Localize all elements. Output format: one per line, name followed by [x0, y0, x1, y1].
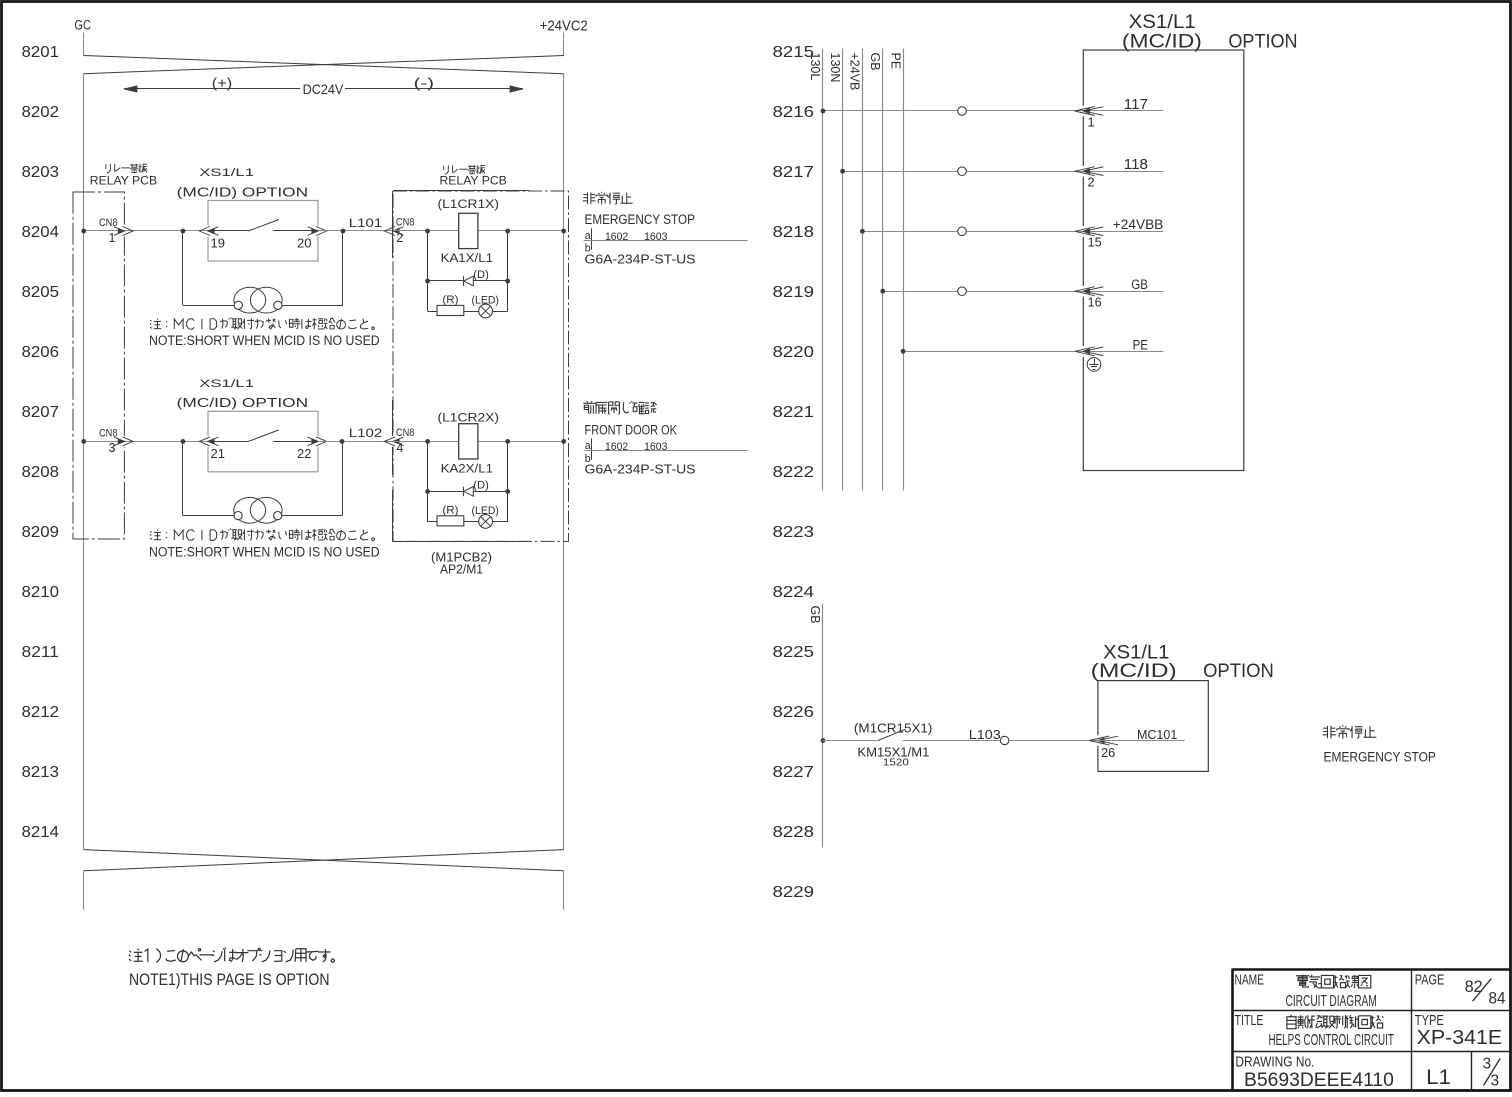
svg-text:OPTION: OPTION — [1203, 660, 1274, 682]
bus 130N — [842, 49, 844, 491]
wire net 117 row — [823, 110, 1163, 112]
svg-text:1602: 1602 — [605, 231, 628, 243]
svg-text:(LED): (LED) — [472, 505, 499, 517]
svg-text:8217: 8217 — [773, 164, 815, 181]
svg-text:TITLE: TITLE — [1235, 1013, 1264, 1029]
svg-text:AP2/M1: AP2/M1 — [440, 562, 483, 577]
svg-text:XS1/L1: XS1/L1 — [199, 167, 254, 179]
svg-text:8209: 8209 — [22, 524, 60, 541]
contact cross-reference a/b row2 — [584, 438, 748, 465]
connector pin 26 — [1089, 735, 1118, 746]
svg-text:GC: GC — [74, 18, 91, 34]
bus 130L — [822, 49, 824, 491]
svg-text:2: 2 — [396, 231, 403, 245]
svg-text:OPTION: OPTION — [1228, 31, 1297, 53]
svg-text:1603: 1603 — [644, 441, 667, 453]
svg-text:1602: 1602 — [605, 441, 628, 453]
wire +24VC2 bus bottom stub — [563, 871, 565, 910]
svg-text:84: 84 — [1489, 989, 1506, 1007]
resistor R row2 — [437, 516, 464, 526]
branch verticals row2 cell — [427, 441, 429, 521]
svg-text:130L: 130L — [808, 53, 822, 81]
svg-text:1: 1 — [1088, 115, 1095, 130]
DC24V polarity arrow — [124, 75, 523, 98]
pin 20 connector — [308, 226, 327, 237]
svg-text:8226: 8226 — [773, 704, 815, 721]
XS1/L1 MC/ID option box (bottom) — [1098, 681, 1208, 772]
node L102 junction — [340, 439, 345, 444]
connector CN8 pin 4 — [384, 436, 403, 447]
shorting jumper (MCID bypass) row1 — [183, 231, 344, 313]
pin 21 connector — [199, 436, 218, 447]
svg-text:8206: 8206 — [22, 344, 60, 361]
svg-text:2: 2 — [1088, 175, 1095, 190]
svg-text:G6A-234P-ST-US: G6A-234P-ST-US — [585, 461, 696, 476]
svg-text:+24VBB: +24VBB — [1113, 217, 1164, 233]
relay PCB boundary box (right) — [393, 191, 569, 541]
svg-text:RELAY PCB: RELAY PCB — [440, 174, 507, 188]
wire GC bus stub — [83, 33, 85, 56]
LED lamp row1 — [479, 304, 493, 318]
label relay PCB (left) — [105, 164, 107, 168]
svg-text:EMERGENCY STOP: EMERGENCY STOP — [585, 212, 695, 227]
contact switch 21-22 — [208, 430, 318, 442]
svg-text:8210: 8210 — [22, 584, 60, 601]
junction node before contact 19 — [181, 229, 186, 234]
svg-text:CN8: CN8 — [99, 217, 118, 229]
svg-text:8202: 8202 — [22, 104, 60, 121]
svg-text:(LED): (LED) — [472, 294, 499, 306]
svg-text:GB: GB — [808, 606, 822, 624]
svg-text:GB: GB — [1131, 277, 1148, 293]
pin 22 connector — [308, 436, 327, 447]
wire node GC to CN8-1 — [84, 230, 208, 232]
title block — [1232, 969, 1510, 1091]
MC/ID option box U1 (XS1/L1 contact 19-20) — [208, 201, 318, 262]
bus GB (bottom section) — [822, 604, 824, 848]
svg-text:8207: 8207 — [22, 404, 60, 421]
svg-text:(MC/ID): (MC/ID) — [1122, 31, 1202, 53]
relay coil KA1X/L1 (L1CR1X) — [459, 213, 478, 248]
LED lamp row2 — [479, 515, 493, 529]
svg-text:(D): (D) — [473, 480, 489, 492]
svg-text:8220: 8220 — [773, 344, 815, 361]
svg-text:8216: 8216 — [773, 104, 815, 121]
junction on +24VC2 bus row2 — [561, 439, 566, 444]
svg-text:FRONT DOOR OK: FRONT DOOR OK — [585, 422, 678, 437]
svg-text:8205: 8205 — [22, 284, 60, 301]
svg-text:+24VB: +24VB — [848, 53, 862, 91]
terminal circle net GB — [958, 287, 967, 296]
wire contact to relay (node L102) — [318, 441, 393, 443]
diode branch row2 — [428, 491, 508, 493]
svg-text:130N: 130N — [828, 53, 842, 83]
svg-text:PAGE: PAGE — [1415, 972, 1445, 988]
wire bus crossover top — [84, 56, 564, 74]
wire contact to relay (node L101) — [318, 230, 393, 232]
svg-text:8201: 8201 — [22, 44, 60, 61]
wire stub inside bottom box — [1098, 740, 1185, 742]
svg-text:G6A-234P-ST-US: G6A-234P-ST-US — [585, 251, 696, 266]
wire net +24VBB row — [862, 231, 1163, 233]
svg-text:16: 16 — [1088, 295, 1102, 310]
svg-text:8225: 8225 — [773, 644, 815, 661]
diode D row2 — [464, 487, 474, 497]
svg-text:8224: 8224 — [773, 584, 815, 601]
svg-text:4: 4 — [396, 441, 403, 455]
diode branch row1 — [428, 280, 508, 282]
svg-text:CN8: CN8 — [396, 216, 415, 228]
svg-text:8203: 8203 — [22, 164, 60, 181]
junction on +24VC2 bus row1 — [561, 229, 566, 234]
wire +24VC2 bus stub — [563, 33, 565, 56]
contact switch 19-20 — [208, 220, 318, 232]
svg-text:KA1X/L1: KA1X/L1 — [441, 251, 494, 265]
svg-text:L103: L103 — [969, 727, 1001, 742]
wire L103 to option box — [1009, 740, 1098, 742]
terminal circle net +24VBB — [958, 227, 967, 236]
junction node before contact 21 — [181, 439, 186, 444]
svg-text:118: 118 — [1124, 157, 1148, 173]
svg-text:+24VC2: +24VC2 — [540, 17, 588, 34]
svg-text:B5693DEEE4110: B5693DEEE4110 — [1244, 1069, 1394, 1091]
svg-text:PE: PE — [1133, 337, 1148, 353]
relay coil KA2X/L1 (L1CR2X) — [459, 424, 478, 459]
svg-text:NOTE:SHORT WHEN MCID IS NO USE: NOTE:SHORT WHEN MCID IS NO USED — [149, 333, 380, 348]
junction on GB bus 8226 — [821, 738, 826, 743]
junction relay right row2 — [505, 439, 510, 444]
junction on bus 130N — [840, 169, 845, 174]
wire net GB row — [883, 291, 1164, 293]
junction on bus GB — [880, 289, 885, 294]
svg-text:8222: 8222 — [773, 464, 815, 481]
wire bus crossover bottom — [84, 850, 564, 871]
svg-text:3: 3 — [1483, 1056, 1492, 1073]
label relay PCB (right) — [443, 166, 445, 170]
svg-text:8214: 8214 — [22, 824, 60, 841]
svg-text:DC24V: DC24V — [303, 82, 345, 97]
svg-text:CN8: CN8 — [396, 427, 415, 439]
wire +24VC2 bus (right vertical) — [563, 74, 565, 850]
wire relay row1 — [393, 230, 564, 232]
svg-text:(L1CR2X): (L1CR2X) — [438, 411, 500, 425]
svg-text:XP-341E: XP-341E — [1417, 1026, 1503, 1049]
wire node GC to CN8-3 — [84, 441, 208, 443]
branch verticals row1 cell — [427, 231, 429, 311]
node L101 junction — [341, 229, 346, 234]
annotation emergency stop (Japanese, bottom) — [1326, 726, 1328, 738]
protective earth symbol PE — [1087, 358, 1101, 372]
svg-text:CN8: CN8 — [99, 428, 118, 440]
svg-text:8221: 8221 — [773, 404, 815, 421]
svg-text:L102: L102 — [349, 427, 382, 440]
svg-text:8228: 8228 — [773, 824, 815, 841]
svg-text:8218: 8218 — [773, 224, 815, 241]
annotation front door OK (Japanese) row2 — [587, 401, 588, 402]
terminal circle net 118 — [958, 167, 967, 176]
note 1: this page is option (Japanese) — [129, 951, 131, 953]
connector pin 16 (right box) — [1075, 286, 1104, 297]
svg-text:8219: 8219 — [773, 284, 815, 301]
svg-text:NAME: NAME — [1235, 972, 1265, 988]
pin 19 connector — [199, 226, 218, 237]
wire GC bus (left vertical) — [83, 74, 85, 850]
junction on GC bus row 8204 — [81, 229, 86, 234]
bus +24VB — [862, 49, 864, 491]
connector pin 2 (right box) — [1075, 166, 1104, 177]
svg-text:22: 22 — [297, 446, 311, 461]
note short when MCID not used (row2, Japanese) — [150, 531, 151, 532]
row number labels 8215-8229 — [773, 44, 815, 901]
svg-text:RELAY PCB: RELAY PCB — [90, 174, 157, 188]
svg-text:CIRCUIT DIAGRAM: CIRCUIT DIAGRAM — [1286, 993, 1377, 1010]
resistor R row1 — [437, 305, 464, 315]
svg-text:3: 3 — [109, 441, 116, 455]
junction on bus 130L — [821, 109, 826, 114]
svg-text:XS1/L1: XS1/L1 — [199, 378, 254, 390]
XS1/L1 MC/ID option box (right) — [1083, 50, 1244, 471]
wire GB to contact KM15X1 — [823, 740, 878, 742]
contact cross-reference a/b row1 — [584, 228, 748, 254]
svg-text:21: 21 — [211, 446, 225, 461]
row number labels 8201-8214 — [22, 44, 60, 841]
svg-text:(D): (D) — [473, 269, 489, 281]
svg-text:8227: 8227 — [773, 764, 815, 781]
MC/ID option box U2 (XS1/L1 contact 21-22) — [208, 411, 318, 472]
junction on bus +24VB — [860, 229, 865, 234]
connector CN8 pin 1 — [114, 226, 133, 237]
svg-text:(MC/ID) OPTION: (MC/ID) OPTION — [177, 395, 308, 410]
contact KM15X1/M1 (M1CR15X1) — [878, 729, 1000, 740]
junction relay left row1 — [425, 229, 430, 234]
svg-text:1603: 1603 — [644, 231, 667, 243]
wire net 118 row — [843, 171, 1164, 173]
wire relay row2 — [393, 441, 564, 443]
diode D row1 — [464, 276, 474, 286]
svg-text:(MC/ID) OPTION: (MC/ID) OPTION — [177, 184, 308, 199]
svg-text:3: 3 — [1491, 1073, 1500, 1090]
svg-text:26: 26 — [1101, 745, 1115, 760]
svg-text:1: 1 — [109, 231, 116, 245]
svg-text:NOTE:SHORT WHEN MCID IS NO USE: NOTE:SHORT WHEN MCID IS NO USED — [149, 545, 380, 560]
svg-text:PE: PE — [888, 53, 902, 70]
svg-text:19: 19 — [211, 236, 225, 251]
svg-text:8211: 8211 — [22, 644, 60, 661]
svg-text:8208: 8208 — [22, 464, 60, 481]
relay PCB connector box (left) — [73, 192, 124, 539]
connector pin 15 (right box) — [1075, 226, 1104, 237]
annotation emergency stop (Japanese) row1 — [587, 192, 589, 204]
svg-text:1520: 1520 — [883, 757, 909, 769]
connector CN8 pin 2 — [384, 226, 403, 237]
LED branch row1 — [428, 311, 508, 313]
svg-text:(R): (R) — [442, 294, 458, 306]
svg-text:KA2X/L1: KA2X/L1 — [441, 461, 494, 475]
svg-text:8229: 8229 — [773, 884, 815, 901]
svg-text:MC101: MC101 — [1137, 727, 1177, 742]
svg-text:15: 15 — [1088, 235, 1102, 250]
svg-text:EMERGENCY STOP: EMERGENCY STOP — [1324, 750, 1436, 765]
terminal circle net 117 — [958, 107, 967, 116]
svg-text:8212: 8212 — [22, 704, 60, 721]
svg-text:GB: GB — [868, 53, 882, 71]
node L103 terminal circle — [1000, 736, 1008, 744]
svg-text:(L1CR1X): (L1CR1X) — [438, 197, 500, 211]
wire GC bus bottom stub — [83, 871, 85, 910]
junction on GC bus row 8207 — [81, 439, 86, 444]
svg-text:20: 20 — [297, 236, 311, 251]
svg-text:L1: L1 — [1426, 1066, 1451, 1089]
svg-text:(R): (R) — [442, 504, 458, 516]
svg-text:8215: 8215 — [773, 44, 815, 61]
svg-text:8204: 8204 — [22, 224, 60, 241]
svg-text:8213: 8213 — [22, 764, 60, 781]
bus GB — [882, 49, 884, 491]
shorting jumper (MCID bypass) row2 — [183, 441, 343, 523]
svg-text:(M1CR15X1): (M1CR15X1) — [854, 721, 933, 736]
svg-text:NOTE1)THIS PAGE IS OPTION: NOTE1)THIS PAGE IS OPTION — [129, 971, 330, 989]
connector pin 1 (right box) — [1075, 106, 1104, 117]
svg-text:HELPS CONTROL CIRCUIT: HELPS CONTROL CIRCUIT — [1269, 1032, 1395, 1049]
svg-text:117: 117 — [1124, 97, 1148, 113]
note short when MCID not used (row1, Japanese) — [150, 320, 151, 321]
junction relay right row1 — [505, 229, 510, 234]
connector CN8 pin 3 — [114, 436, 133, 447]
svg-text:8223: 8223 — [773, 524, 815, 541]
bus PE — [903, 49, 905, 491]
svg-text:L101: L101 — [349, 217, 382, 230]
LED branch row2 — [428, 521, 508, 523]
wire net PE row — [903, 351, 1163, 353]
junction on bus PE — [901, 349, 906, 354]
svg-text:(MC/ID): (MC/ID) — [1091, 660, 1177, 682]
connector pin PE (right box) — [1075, 346, 1104, 357]
junction relay left row2 — [425, 439, 430, 444]
